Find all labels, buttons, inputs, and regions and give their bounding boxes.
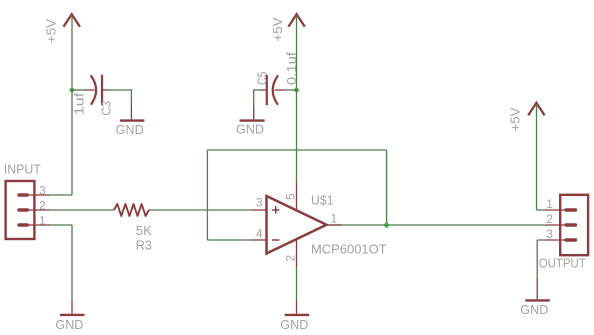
node A junction [69,87,75,93]
supply +5V P1 (top-left) [64,14,80,27]
svg-text:5K: 5K [136,224,153,238]
svg-text:2: 2 [284,255,298,262]
wire +5V to OUTPUT pin1 [536,104,538,210]
svg-text:GND: GND [116,123,144,137]
pin 2 (input) [19,208,27,211]
ground (C3) [120,106,144,121]
pin 1 (input) [19,223,27,226]
svg-text:+5V: +5V [509,107,523,132]
svg-text:GND: GND [520,303,548,317]
ground (output) [525,279,550,301]
ground (C5) [240,106,265,121]
supply +5V P3 (right) [528,103,544,116]
svg-text:1: 1 [546,197,553,211]
svg-text:+5V: +5V [271,17,285,42]
pin 3 (input) [19,193,27,196]
wire feedback to op-amp pin 4 [207,239,252,241]
svg-text:1: 1 [331,212,338,226]
wire C3 to ground [102,89,109,91]
svg-text:GND: GND [236,122,264,136]
node C junction (output/feedback) [383,222,390,229]
supply +5V P2 (top-middle) [288,14,304,27]
wire input pin3 to +5V node A [50,194,72,196]
svg-text:5: 5 [284,193,298,200]
op-amp pin 2 wire to ground [296,239,298,267]
wire +5V to node B [296,16,298,91]
svg-text:2: 2 [39,199,46,213]
svg-text:OUTPUT: OUTPUT [539,256,586,270]
connector OUTPUT SV2 [560,195,588,255]
ground (input) [60,300,84,315]
svg-text:1: 1 [39,214,46,228]
capacitor C3 [91,75,102,105]
svg-text:3: 3 [39,184,46,198]
svg-text:4: 4 [256,227,263,241]
svg-text:MCP6001OT: MCP6001OT [311,242,387,256]
svg-text:GND: GND [55,318,83,332]
pin 3 (output) [566,238,576,241]
svg-text:C5: C5 [256,71,270,85]
svg-text:2: 2 [546,212,553,226]
svg-text:3: 3 [546,227,553,241]
svg-text:INPUT: INPUT [4,163,41,177]
svg-text:GND: GND [280,318,308,332]
op-amp U$1 MCP6001OT [267,196,327,254]
wire +5V to node A [71,16,73,91]
svg-text:1uf: 1uf [73,92,87,115]
pin 1 (output) [566,208,576,211]
wire input pin1 to ground [50,224,72,226]
capacitor C5 [267,75,278,105]
output net op-amp pin 1 to OUTPUT pin 2 [327,224,545,226]
svg-text:U$1: U$1 [311,193,333,207]
feedback wire (output to inverting input) [206,150,208,240]
minus mark (inverting) [272,239,279,241]
pin 2 (output) [566,223,576,226]
wire resistor to op-amp pin 3 [149,209,252,211]
svg-text:C3: C3 [100,101,114,116]
wire OUTPUT pin3 to ground [537,239,545,241]
connector INPUT SV1 [6,181,35,239]
svg-text:3: 3 [256,196,263,210]
ground (op-amp) [285,300,310,315]
node B junction [293,87,299,93]
svg-text:R3: R3 [136,238,152,252]
wire node B to C5 [285,89,297,91]
svg-text:0.1uf: 0.1uf [285,51,299,85]
wire node A to C3 [72,89,84,91]
wire input pin2 to resistor [50,209,114,211]
plus mark (non-inverting) [272,206,279,213]
wire C5 to ground [260,89,267,91]
resistor R3 [114,204,149,216]
wire +5V net down to op-amp pin 5 [296,90,298,183]
svg-text:+5V: +5V [45,18,59,43]
